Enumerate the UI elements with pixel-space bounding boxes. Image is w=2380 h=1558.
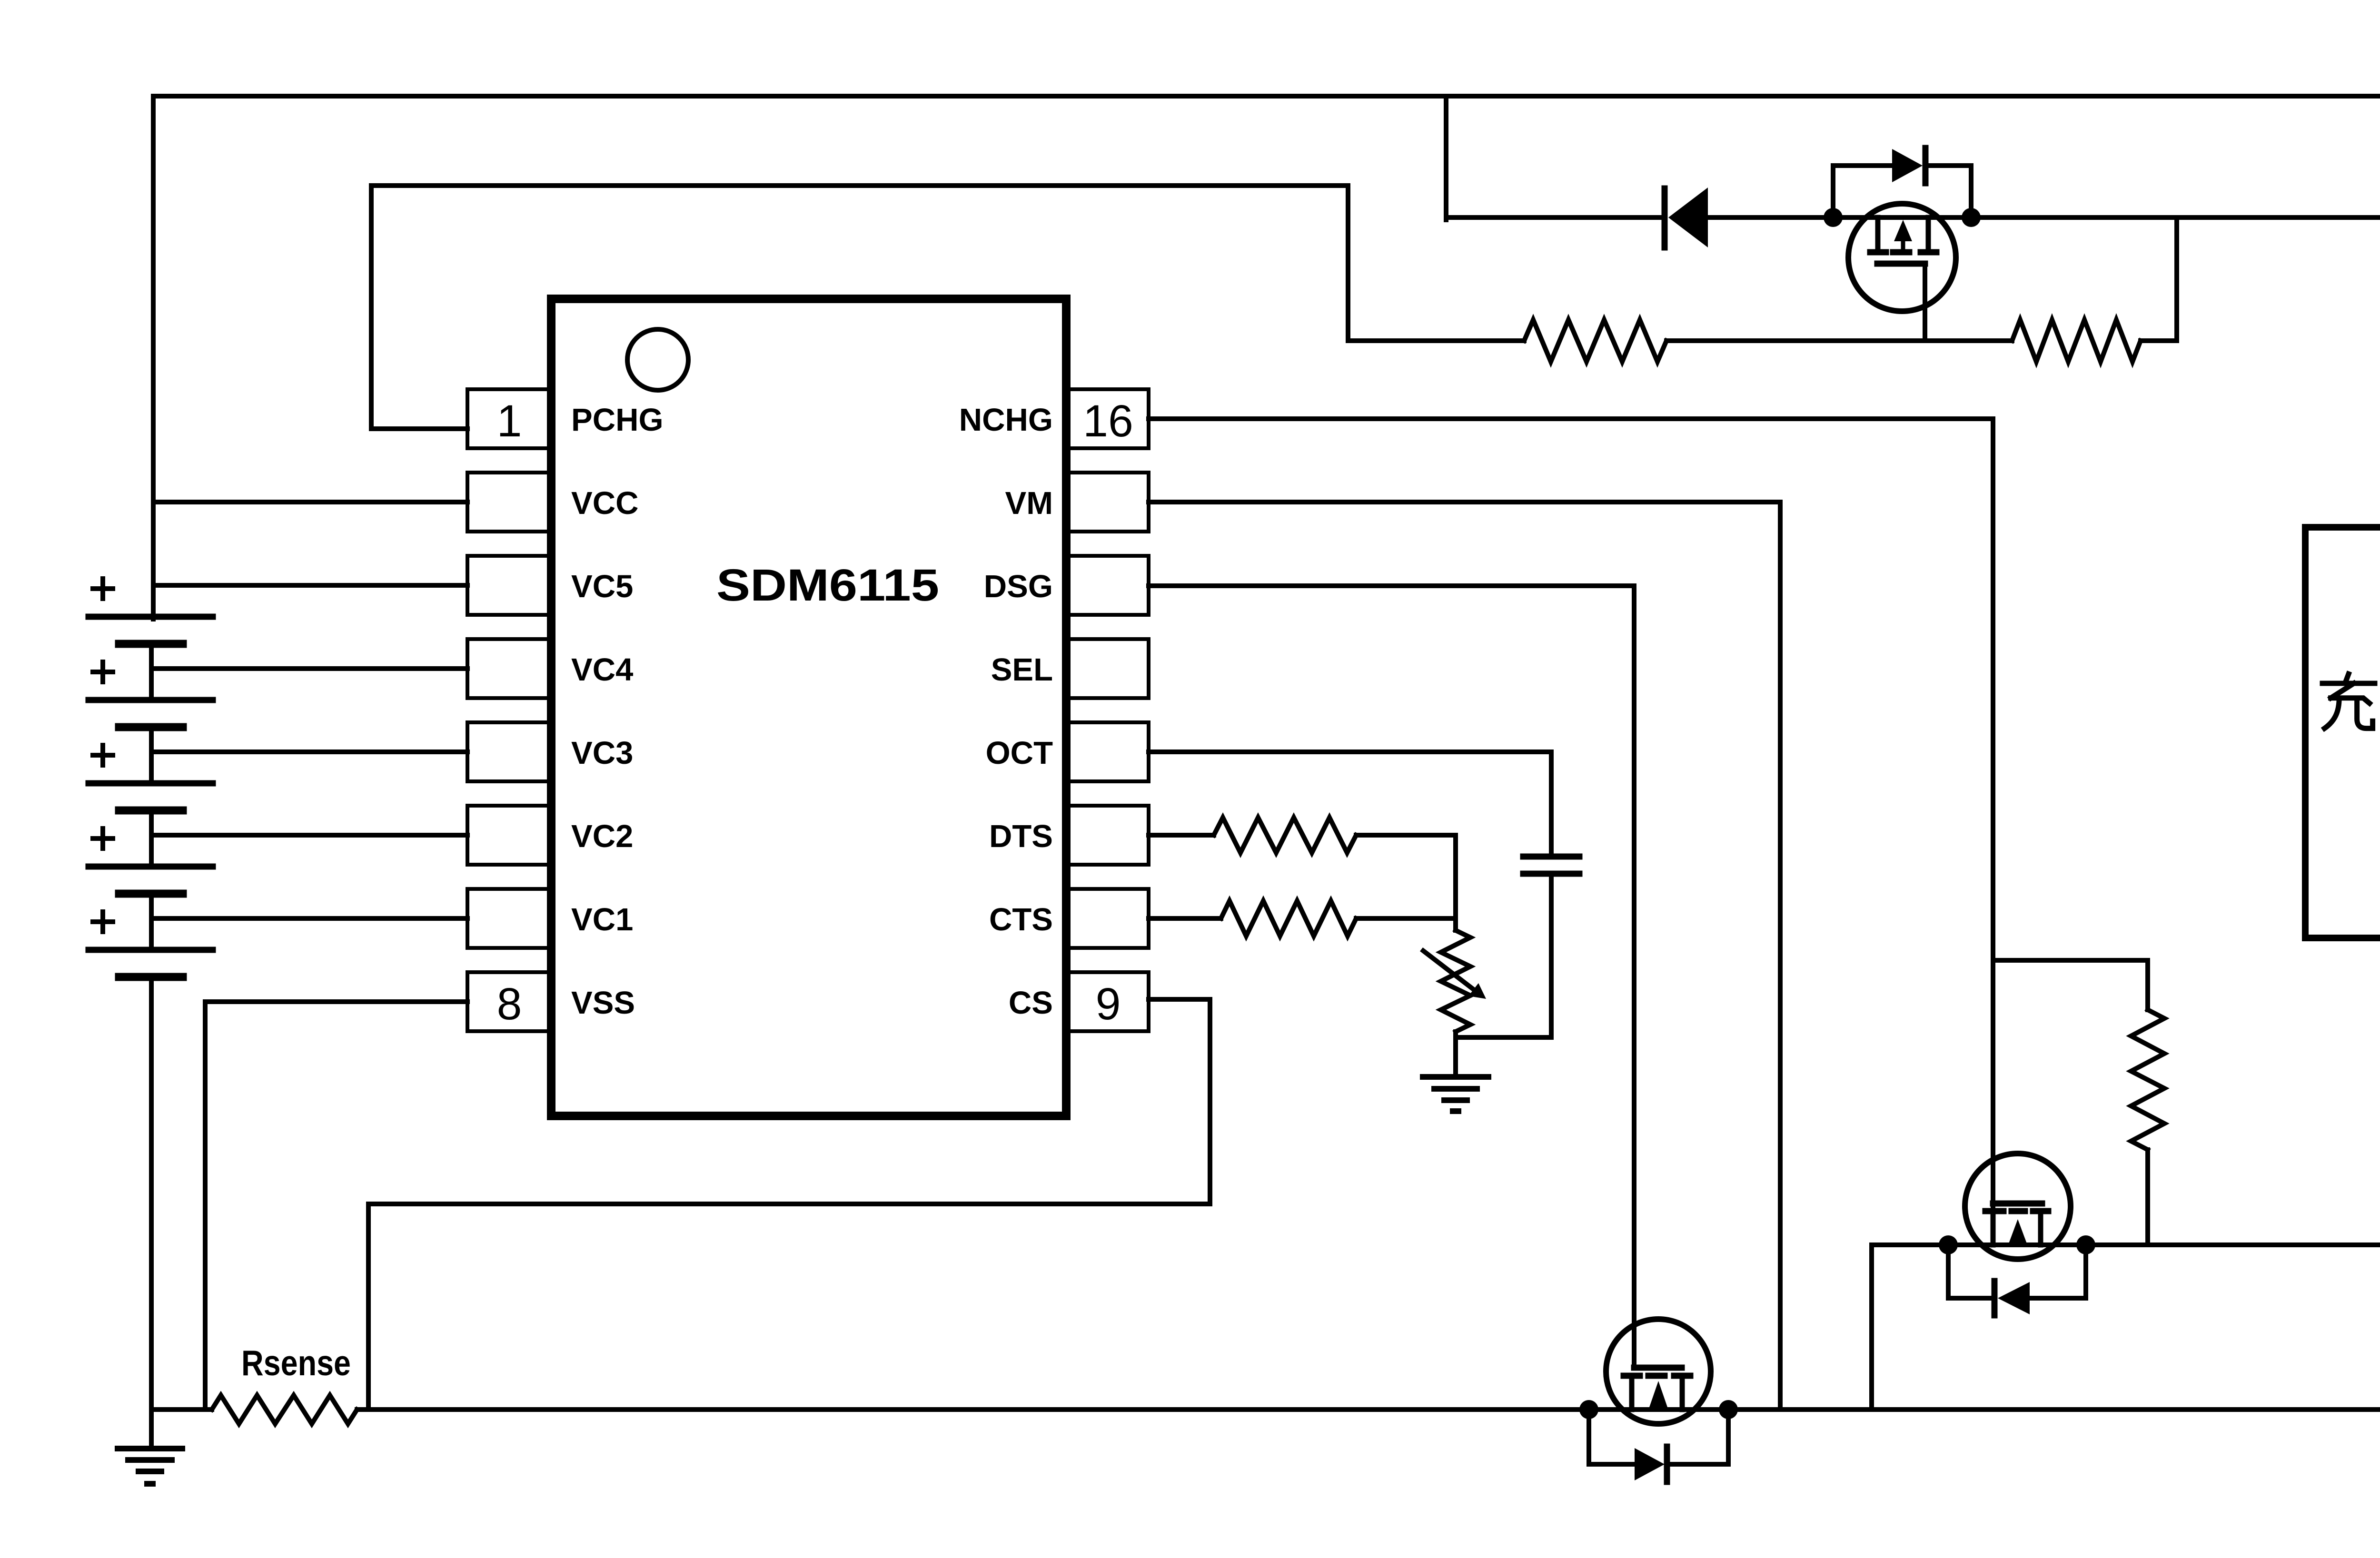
svg-text:VC5: VC5 [571, 569, 633, 604]
wire charge FET source line [1872, 1242, 2380, 1247]
diode D2 (Q1 body diode) [1833, 166, 1891, 217]
wire charge FET drain to rail [1869, 1245, 1874, 1410]
wire battery negative down to rail [149, 977, 154, 1410]
wire R3 bottom to source line [2145, 1150, 2150, 1245]
resistor R2 [2012, 320, 2141, 362]
node Q2 right terminal [2076, 1235, 2095, 1254]
battery cell B4 with + sign [89, 864, 213, 870]
wire DSG to discharge FET gate [1149, 586, 1634, 1368]
capacitor C1 [1523, 854, 1579, 860]
svg-text:NCHG: NCHG [959, 402, 1053, 438]
resistor R3 (charge FET gate-source) [2131, 1010, 2164, 1150]
svg-text:VCC: VCC [571, 485, 638, 521]
svg-text:VC1: VC1 [571, 902, 633, 937]
wire VCC [153, 500, 467, 504]
wire bottom negative rail left of Rsense [151, 1407, 212, 1412]
pin box VC1 (left pin 7) [467, 889, 553, 948]
resistor Rsense [212, 1395, 357, 1424]
pin box VC4 (left pin 4) [467, 639, 553, 698]
pin box SEL (right) [1068, 639, 1149, 698]
wire DTS to CTS node [1356, 835, 1456, 918]
wire CTS [1149, 916, 1221, 921]
battery cell B1 with + sign [89, 614, 213, 620]
svg-text:Rsense: Rsense [241, 1343, 351, 1383]
wire Q1 gate line middle segment [1666, 338, 2012, 343]
ground symbol at battery negative [149, 1410, 154, 1449]
wire battery intercell 2 [149, 727, 154, 783]
pin box VC2 (left pin 6) [467, 806, 553, 865]
svg-text:9: 9 [1096, 979, 1121, 1029]
wire charge line diode to charger [1708, 215, 2380, 220]
wire stub from top rail down to charge-path line [1444, 96, 1448, 220]
wire capacitor bottom to thermistor node [1456, 877, 1551, 1037]
svg-text:8: 8 [497, 979, 522, 1029]
svg-text:VSS: VSS [571, 985, 635, 1021]
svg-text:OCT: OCT [986, 735, 1053, 771]
svg-text:CS: CS [1009, 985, 1053, 1021]
pin box OCT (right) [1068, 722, 1149, 781]
thermistor RT1 [1453, 918, 1458, 930]
wire bottom negative rail (B- to motor) [357, 938, 2380, 1410]
wire R2 to Q1 source [2141, 217, 2177, 341]
svg-text:16: 16 [1083, 396, 1133, 446]
pin box VCC (left pin 2) [467, 473, 553, 532]
svg-text:VC4: VC4 [571, 652, 633, 688]
pin box VC3 (left pin 5) [467, 722, 553, 781]
wire VC3 [151, 749, 467, 754]
pin box PCHG pin 1 [467, 389, 553, 448]
pin box CTS (right) [1068, 889, 1149, 948]
battery cell B2 with + sign [89, 697, 213, 703]
transistor Q2 N-channel charge MOSFET [1965, 1154, 2071, 1259]
resistor R1 [1524, 320, 1666, 362]
wire battery intercell 1 [149, 644, 154, 700]
wire CS (pin 9 to sense rail) [368, 999, 1210, 1410]
battery cell B3 with + sign [89, 780, 213, 787]
wire VC1 [151, 916, 467, 921]
diode D3 (Q2 body diode) [1948, 1245, 1992, 1298]
pin box NCHG (right) [1068, 389, 1149, 448]
op-amp U1 SDM6115 IC body [551, 299, 1066, 1116]
resistor R5 (CTS) [1221, 901, 1356, 936]
wire VM to pack negative [1149, 502, 1780, 1410]
node P-FET right terminal [1962, 208, 1981, 227]
diode D4 (Q3 body diode) [1589, 1410, 1635, 1464]
wire Q1 gate line left segment [1348, 338, 1524, 343]
node Q3 left terminal [1579, 1400, 1598, 1419]
charger box [2305, 527, 2380, 938]
wire VC5 [153, 583, 467, 588]
pin-1 indicator circle [627, 329, 688, 390]
label charger (Chinese 充电器) [2322, 674, 2375, 728]
svg-text:SEL: SEL [991, 652, 1053, 688]
pin box DTS (right) [1068, 806, 1149, 865]
transistor Q1 P-channel charge-control MOSFET [1848, 204, 1956, 311]
wire VC2 [151, 833, 467, 838]
wire DTS [1149, 833, 1214, 838]
transistor Q3 N-channel discharge MOSFET [1606, 1319, 1711, 1424]
wire VSS [205, 1002, 467, 1410]
svg-text:1: 1 [497, 396, 522, 446]
svg-text:DTS: DTS [989, 818, 1053, 854]
ground symbol at thermistor [1453, 1037, 1458, 1077]
wire PCHG route (pin 1 up and across) [371, 186, 1348, 429]
wire battery intercell 3 [149, 810, 154, 867]
battery cell B5 with + sign [89, 947, 213, 953]
svg-text:DSG: DSG [984, 569, 1053, 604]
wire battery intercell 4 [149, 894, 154, 950]
pin box VM (right) [1068, 473, 1149, 532]
wire OCT to capacitor [1149, 752, 1551, 854]
svg-text:CTS: CTS [989, 902, 1053, 937]
svg-text:VC2: VC2 [571, 818, 633, 854]
svg-text:PCHG: PCHG [571, 402, 664, 438]
resistor R4 (DTS) [1214, 818, 1356, 853]
pin box VSS pin 8 [467, 972, 553, 1031]
wire top battery positive rail (B+ to motor) [153, 96, 2380, 619]
svg-text:VC3: VC3 [571, 735, 633, 771]
pin box VC5 (left pin 3) [467, 556, 553, 615]
wire charge line left of diode D1 [1446, 215, 1665, 220]
node Q3 right terminal [1719, 1400, 1738, 1419]
wire CTS to thermistor [1356, 916, 1456, 921]
svg-text:VM: VM [1005, 485, 1053, 521]
node P-FET left terminal [1824, 208, 1843, 227]
wire NCHG branch to gate-source resistor [1993, 960, 2148, 1010]
node Q2 left terminal [1939, 1235, 1958, 1254]
wire NCHG to charge FET gate [1149, 419, 1993, 1206]
pin box CS (right) [1068, 972, 1149, 1031]
diode D1 [1662, 188, 1668, 247]
wire VC4 [151, 666, 467, 671]
svg-text:SDM6115: SDM6115 [716, 560, 939, 611]
pin box DSG (right) [1068, 556, 1149, 615]
